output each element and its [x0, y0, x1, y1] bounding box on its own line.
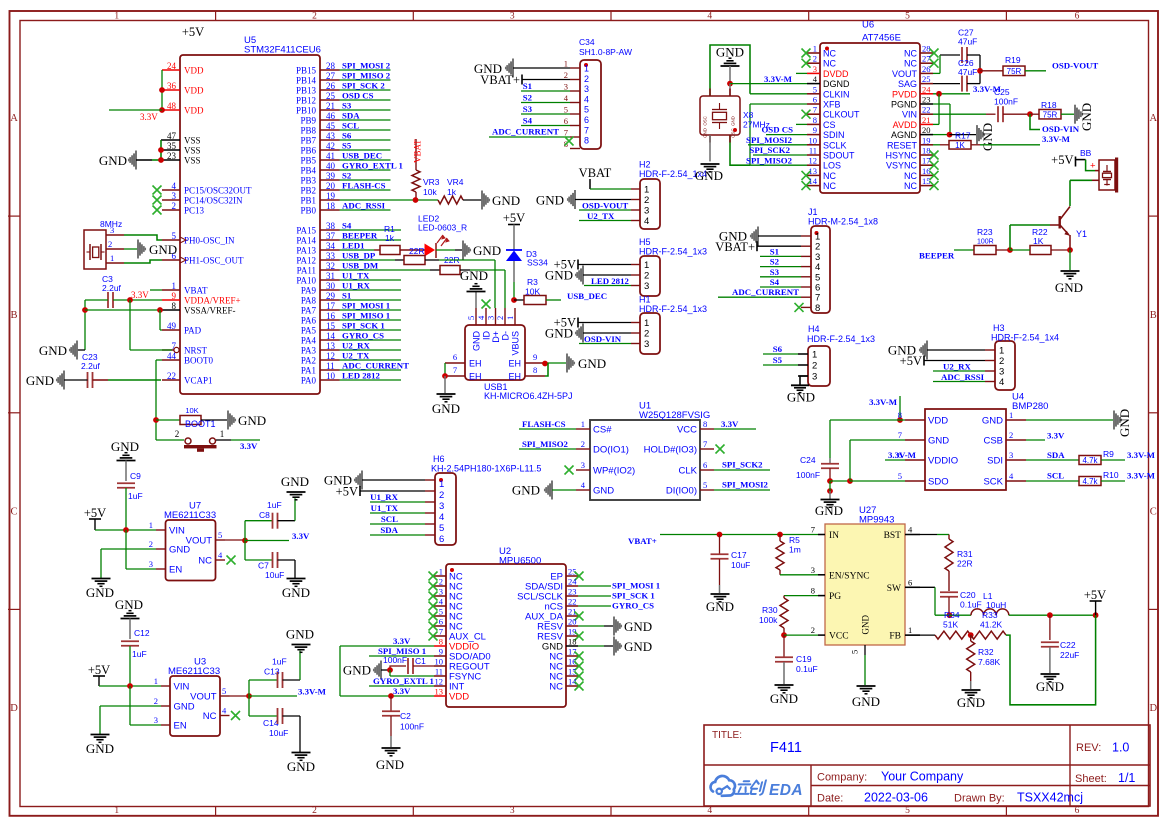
svg-text:GND: GND — [492, 193, 520, 208]
wire net SCL from U5 PB8 — [340, 121, 391, 131]
svg-text:2: 2 — [999, 356, 1004, 367]
svg-text:SAG: SAG — [898, 79, 917, 89]
svg-text:GND: GND — [982, 416, 1003, 427]
gnd flag U2 GND18 — [578, 637, 652, 656]
header J1 pin 1 — [801, 232, 820, 243]
net label 3.3V near VDD48 — [140, 112, 158, 122]
connector C34 pin 1 — [564, 59, 589, 74]
svg-text:0.1uF: 0.1uF — [960, 600, 982, 610]
svg-text:9: 9 — [172, 291, 177, 301]
mcu U5 pin 48 VDD — [162, 101, 204, 116]
wire net U2_TX to H2 — [579, 211, 631, 221]
svg-text:VR4: VR4 — [447, 177, 464, 187]
mcu U5 STM32F411CEU6 body — [180, 35, 321, 394]
svg-text:GND: GND — [39, 343, 67, 358]
svg-text:5: 5 — [218, 530, 222, 540]
header H5 pin 2 — [631, 271, 649, 282]
svg-text:+5V: +5V — [503, 211, 525, 225]
flash U1 pin 3 WP#(IO2) — [576, 460, 635, 477]
osd U6 pin 26 VOUT — [892, 64, 933, 79]
svg-text:12: 12 — [326, 351, 335, 361]
svg-text:1: 1 — [564, 59, 568, 69]
svg-text:GND: GND — [1036, 679, 1064, 694]
svg-text:2: 2 — [644, 271, 649, 282]
wire net S1 to J1 — [760, 246, 801, 256]
gnd flag at U5 VSS pins — [99, 151, 161, 170]
svg-text:22uF: 22uF — [1060, 650, 1079, 660]
svg-text:SPI_SCK 2: SPI_SCK 2 — [342, 81, 385, 91]
svg-text:75R: 75R — [1043, 110, 1058, 119]
svg-text:C34: C34 — [579, 37, 595, 47]
svg-text:NC: NC — [823, 59, 836, 69]
gnd earth above C9 — [111, 439, 139, 481]
svg-text:S3: S3 — [770, 267, 780, 277]
gnd flag C23 — [26, 371, 88, 390]
svg-text:GND: GND — [852, 694, 880, 709]
header J1 pin 6 — [801, 283, 820, 294]
svg-text:5: 5 — [564, 105, 568, 115]
svg-text:A: A — [1150, 113, 1158, 124]
svg-text:44: 44 — [167, 351, 177, 361]
svg-text:+5V: +5V — [84, 506, 106, 520]
regulator U3 pin 4 NC — [203, 706, 230, 723]
svg-text:7: 7 — [453, 365, 457, 375]
svg-text:23: 23 — [167, 151, 177, 161]
wire net FLASH-CS from U5 PB2 — [340, 181, 391, 191]
svg-text:GND: GND — [472, 331, 482, 352]
imu U2 pin 7 AUX_CL — [429, 627, 486, 643]
svg-text:20: 20 — [922, 125, 931, 135]
svg-text:15: 15 — [922, 176, 931, 186]
svg-text:16: 16 — [922, 166, 931, 176]
svg-text:GND: GND — [1079, 103, 1094, 131]
svg-text:2: 2 — [644, 195, 649, 206]
svg-text:GND: GND — [980, 123, 995, 151]
svg-text:ADC_CURRENT: ADC_CURRENT — [492, 127, 559, 137]
svg-text:VBAT: VBAT — [413, 139, 423, 163]
svg-text:DI(IO0): DI(IO0) — [666, 486, 697, 497]
svg-text:HDR-M-2.54_1x8: HDR-M-2.54_1x8 — [808, 217, 878, 227]
svg-text:GND: GND — [716, 45, 744, 60]
gnd flag USB1 right — [566, 354, 606, 373]
regulator U7 pin 2 GND — [149, 539, 191, 556]
usb USB1 pin 6 EH — [445, 352, 482, 369]
wire net S4 to C34 — [521, 116, 570, 126]
no-connect mark U1 WP# — [565, 466, 574, 475]
svg-text:25: 25 — [922, 74, 931, 84]
osd U6 pin 12 LOS — [807, 156, 841, 171]
flash U1 pin 8 VCC — [677, 419, 714, 436]
wire USB1 EH9 EH8 to gnd — [542, 361, 566, 376]
wire U2 FSYNC to gnd — [390, 670, 434, 676]
mcu U5 pin 33 PA12 — [296, 251, 339, 266]
gnd flag U2 RESV20 — [578, 617, 652, 636]
svg-text:49: 49 — [167, 321, 177, 331]
svg-text:Sheet:: Sheet: — [1075, 773, 1107, 785]
mcu U5 pin 24 VDD — [162, 61, 204, 76]
svg-text:S1: S1 — [770, 246, 779, 256]
svg-text:USB_DM: USB_DM — [342, 261, 379, 271]
svg-text:PB1: PB1 — [300, 196, 316, 206]
svg-text:15: 15 — [326, 321, 336, 331]
svg-text:3: 3 — [510, 806, 515, 816]
svg-text:29: 29 — [326, 291, 336, 301]
svg-text:GND: GND — [1117, 409, 1132, 437]
header H5 pin 1 — [631, 260, 649, 271]
svg-text:10uF: 10uF — [731, 560, 750, 570]
svg-text:HDR-F-2.54_1x3: HDR-F-2.54_1x3 — [639, 304, 707, 314]
wire PVDD to AVDD tie — [933, 94, 939, 125]
wire net SPI_MOSI 1 from U5 PA7 — [340, 301, 402, 311]
svg-text:GND: GND — [86, 585, 114, 600]
logo LCEDA cloud icon — [711, 776, 735, 796]
mcu U5 pin 26 PB13 — [296, 81, 340, 96]
svg-text:BMP280: BMP280 — [1012, 401, 1048, 412]
svg-text:R19: R19 — [1005, 55, 1021, 65]
capacitor C17 10uF — [711, 535, 751, 594]
sensor U4 pin 6 VDDIO — [898, 450, 958, 467]
svg-text:B: B — [1150, 310, 1157, 321]
wire +5V to U5 VDD pins — [159, 70, 165, 113]
svg-text:47uF: 47uF — [958, 67, 977, 77]
svg-text:18: 18 — [568, 637, 577, 647]
osd U6 pin 6 XFB — [807, 95, 841, 110]
connector C34 pin 6 — [564, 115, 589, 126]
mcu U5 pin 45 PB8 — [300, 121, 339, 136]
wire net SPI_MISO2 to U1 — [519, 439, 576, 449]
buzzer BB — [1080, 148, 1118, 193]
svg-text:46: 46 — [326, 111, 336, 121]
svg-text:CSB: CSB — [983, 436, 1003, 447]
svg-text:PC14/OSC32IN: PC14/OSC32IN — [184, 196, 243, 206]
wire net GYRO_EXTL 1 from U5 PB4 — [340, 161, 403, 171]
mcu U5 pin 2 PC13 — [162, 201, 205, 216]
svg-text:OSD-VOUT: OSD-VOUT — [582, 201, 628, 211]
wire net LED1 from U5 PA13 — [340, 241, 375, 251]
svg-text:NC: NC — [203, 711, 217, 722]
imu U2 pin 15 NC — [549, 667, 583, 683]
osd U6 pin 27 NC — [904, 54, 939, 69]
svg-text:2: 2 — [108, 239, 112, 249]
svg-text:6: 6 — [1075, 12, 1080, 22]
wire VDDA 3.3V net — [85, 297, 162, 350]
wire net S2 to J1 — [760, 257, 801, 267]
mcu U5 pin 41 PB5 — [300, 151, 339, 166]
wire net ADC_CURRENT from U5 PA1 — [340, 361, 410, 371]
regulator U7 ME6211C33 body — [164, 501, 216, 581]
title block REV label — [1076, 742, 1101, 754]
svg-text:42: 42 — [326, 141, 335, 151]
svg-text:LED 2812: LED 2812 — [342, 371, 380, 381]
header H6 pin 5 — [425, 523, 444, 534]
svg-text:40: 40 — [326, 161, 336, 171]
power flag VBAT at H2 — [579, 166, 631, 189]
gnd earth above crystal X8 — [716, 45, 744, 84]
wire VBAT+ to U27 IN — [660, 532, 818, 538]
svg-text:3: 3 — [564, 82, 568, 92]
junction dot U4 VDD — [897, 417, 903, 423]
gnd flag J1 pin1 — [719, 227, 801, 246]
mcu U5 pin 23 VSS — [161, 151, 201, 166]
regulator U7 pin 5 VOUT — [186, 530, 225, 547]
svg-text:SCLK: SCLK — [823, 140, 847, 150]
svg-text:GND: GND — [770, 691, 798, 706]
svg-text:HDR-F-2.54_1x4: HDR-F-2.54_1x4 — [991, 333, 1059, 343]
svg-text:S4: S4 — [770, 277, 780, 287]
svg-text:PA10: PA10 — [296, 276, 316, 286]
svg-text:3: 3 — [811, 565, 815, 575]
svg-text:ADC_RSSI: ADC_RSSI — [941, 372, 985, 382]
svg-text:ME6211C33: ME6211C33 — [168, 666, 220, 677]
svg-text:DVDD: DVDD — [823, 69, 849, 79]
svg-text:100nF: 100nF — [796, 470, 820, 480]
mcu U5 pin 44 BOOT0 — [162, 351, 213, 366]
svg-text:3.3V-M: 3.3V-M — [888, 450, 917, 460]
header H6 pin 6 — [425, 534, 444, 545]
svg-text:CS: CS — [823, 120, 836, 130]
svg-text:PB6: PB6 — [300, 146, 316, 156]
svg-text:SDIN: SDIN — [823, 130, 845, 140]
svg-text:U2_RX: U2_RX — [943, 362, 972, 372]
mcu U5 pin 3 PC14/OSC32IN — [162, 191, 243, 206]
resistor 22R USB_DP — [395, 255, 460, 265]
svg-text:25: 25 — [326, 91, 336, 101]
svg-text:EH: EH — [508, 359, 521, 369]
svg-text:GND: GND — [815, 503, 843, 518]
svg-text:VOUT: VOUT — [186, 536, 213, 547]
svg-text:D: D — [10, 703, 18, 714]
svg-text:4: 4 — [439, 512, 444, 523]
svg-text:36: 36 — [167, 81, 177, 91]
resistor 22R USB_DM — [430, 266, 470, 275]
svg-text:48: 48 — [167, 101, 177, 111]
flash U1 pin 1 CS# — [576, 419, 612, 436]
svg-text:21: 21 — [922, 115, 931, 125]
svg-text:LED 2812: LED 2812 — [591, 276, 629, 286]
svg-text:2: 2 — [312, 12, 317, 22]
wire net SPI_MISO 1 at U2 SDO — [369, 646, 434, 656]
mcu U5 pin 21 PB10 — [296, 101, 340, 116]
wire U4 GND1 to flag — [1026, 419, 1113, 421]
mcu U5 pin 46 PB9 — [300, 111, 339, 126]
header H3 HDR-F-2.54_1x4 body — [991, 323, 1059, 390]
svg-text:75R: 75R — [1007, 67, 1022, 76]
svg-text:19: 19 — [326, 191, 336, 201]
svg-text:OSC GND: OSC GND — [731, 116, 736, 138]
svg-text:8: 8 — [533, 365, 537, 375]
mcu U5 pin 7 NRST — [162, 341, 208, 356]
svg-text:1: 1 — [812, 350, 817, 361]
svg-text:CLKOUT: CLKOUT — [823, 110, 860, 120]
svg-text:7: 7 — [811, 525, 815, 535]
svg-text:2.2uf: 2.2uf — [102, 283, 122, 293]
svg-text:5: 5 — [850, 650, 860, 654]
wire net SPI_MISO 1 from U5 PA6 — [340, 311, 402, 321]
gnd earth above C12 — [115, 597, 143, 639]
svg-text:VIN: VIN — [902, 110, 917, 120]
osd U6 pin 8 CS — [807, 115, 836, 130]
svg-text:8: 8 — [811, 586, 815, 596]
wire BOOT0 to button rail — [153, 360, 162, 440]
mcu U5 pin 39 PB3 — [300, 171, 339, 186]
net label USB_DEC at R3 — [567, 291, 607, 301]
power flag +5V at D3 — [503, 211, 525, 250]
svg-text:1.0: 1.0 — [1112, 741, 1129, 755]
svg-text:GND: GND — [578, 356, 606, 371]
svg-text:22: 22 — [568, 597, 577, 607]
svg-text:PA15: PA15 — [296, 226, 316, 236]
svg-text:47uF: 47uF — [958, 37, 977, 47]
svg-text:GND: GND — [624, 639, 652, 654]
wire net USB_DEC from U5 PB5 — [340, 151, 391, 161]
svg-text:1: 1 — [908, 625, 912, 635]
junction dot DGND node — [727, 81, 733, 87]
wire net S3 from U5 PB10 — [340, 101, 391, 111]
mcu U5 pin 47 VSS — [161, 131, 201, 146]
junction dot R22/emitter — [1067, 247, 1073, 253]
wire VSS tie — [158, 140, 164, 163]
svg-text:22: 22 — [167, 371, 176, 381]
wire SPI_SCK2 to U6 SDOUT — [749, 145, 807, 155]
wire SPI_MOSI2 to U6 SCLK — [746, 135, 807, 145]
svg-text:SDOUT: SDOUT — [823, 151, 855, 161]
gnd flag crystal pin2 — [124, 240, 177, 259]
wire net OSD-VOUT to H2 — [579, 201, 631, 211]
capacitor C1 100nF at REGOUT — [383, 655, 434, 674]
svg-text:NC: NC — [904, 181, 917, 191]
svg-text:3.3V-M: 3.3V-M — [764, 74, 793, 84]
svg-text:19: 19 — [922, 135, 931, 145]
title block company value — [881, 770, 964, 784]
wire net ADC_RSSI to H3 — [933, 372, 985, 382]
svg-text:+5V: +5V — [1051, 153, 1073, 167]
svg-text:C24: C24 — [800, 455, 816, 465]
svg-text:3: 3 — [172, 191, 177, 201]
mcu U5 pin 19 PB1 — [300, 191, 339, 206]
net label VBAT+ at U27 — [628, 536, 657, 546]
svg-text:GND: GND — [787, 390, 815, 405]
title block outline — [704, 725, 1150, 806]
wire net ADC_CURRENT to C34 pin7 — [489, 127, 570, 138]
capacitor C2 100nF — [382, 696, 424, 747]
wire +5V to U3 VIN — [99, 683, 161, 689]
net label SPI_MISO2 on LOS wire — [746, 155, 793, 165]
no-connect mark U3 NC — [231, 711, 240, 720]
svg-text:20: 20 — [326, 181, 336, 191]
wire crystal pin1 to PH1-OSC_OUT — [124, 260, 162, 263]
usb USB1 pin 7 EH — [445, 365, 482, 382]
svg-text:S6: S6 — [773, 344, 783, 354]
wire net SPI_SCK 1 from U5 PA5 — [340, 321, 402, 331]
svg-text:8: 8 — [815, 303, 820, 314]
svg-text:VSSA/VREF-: VSSA/VREF- — [184, 306, 236, 316]
svg-text:NC: NC — [823, 49, 836, 59]
svg-text:PA8: PA8 — [301, 296, 317, 306]
buck U27 pin 8 PG — [811, 586, 842, 603]
svg-text:100nF: 100nF — [400, 722, 424, 732]
connector C34 pin 4 — [564, 93, 589, 104]
svg-text:3.3V-M: 3.3V-M — [298, 687, 327, 697]
mcu U5 pin 13 PA3 — [301, 341, 340, 356]
no-connect marks PC15 PC14 PC13 — [153, 186, 162, 215]
wire +5V to U7 VIN — [95, 527, 156, 533]
svg-text:VDD: VDD — [449, 692, 469, 703]
svg-text:U1_TX: U1_TX — [342, 271, 370, 281]
svg-text:C: C — [10, 507, 17, 518]
wire net S5 from U5 PB6 — [340, 141, 391, 151]
svg-text:10uF: 10uF — [265, 570, 284, 580]
imu U2 pin 11 FSYNC — [434, 667, 481, 683]
junction dot VBUS node — [511, 297, 517, 303]
svg-text:U2_RX: U2_RX — [342, 341, 371, 351]
wire OSD CS to U6 SDIN — [761, 125, 807, 135]
svg-text:NC: NC — [904, 49, 917, 59]
gnd flag BOOT1 resistor — [201, 411, 266, 430]
wire C27/C26 join to R19 — [977, 55, 983, 84]
svg-text:R9: R9 — [1103, 449, 1114, 459]
buck U27 MP9943 body — [825, 505, 905, 645]
imu U2 pin 4 NC — [429, 597, 463, 613]
svg-text:GND: GND — [26, 373, 54, 388]
wire U7 GND to earth — [101, 549, 156, 578]
wire crystal to XFB and LOS — [730, 104, 807, 165]
svg-text:U2_TX: U2_TX — [342, 351, 370, 361]
svg-text:KH-MICRO6.4ZH-5PJ: KH-MICRO6.4ZH-5PJ — [484, 391, 573, 401]
svg-text:NC: NC — [904, 59, 917, 69]
svg-text:R5: R5 — [789, 535, 800, 545]
wire net U1_RX to H6 — [370, 492, 425, 502]
svg-text:EDA: EDA — [769, 782, 803, 799]
wire R33 to +5V rail loop — [1006, 615, 1096, 705]
svg-text:GND: GND — [473, 243, 501, 258]
svg-text:1: 1 — [172, 281, 177, 291]
net label 3.3V-M at R17 — [1042, 134, 1071, 144]
svg-text:23: 23 — [568, 587, 577, 597]
svg-text:NC: NC — [198, 556, 212, 567]
svg-text:D+: D+ — [491, 331, 501, 343]
svg-text:+5V: +5V — [900, 354, 922, 368]
gnd earth C8 — [281, 474, 309, 500]
svg-text:NC: NC — [549, 682, 563, 693]
svg-text:PGND: PGND — [891, 100, 918, 110]
transistor Y1 — [1059, 207, 1088, 251]
gnd earth U7 — [86, 579, 114, 601]
mcu U5 pin 27 PB14 — [296, 71, 340, 86]
svg-text:GND: GND — [545, 326, 573, 341]
svg-text:TSXX42mcj: TSXX42mcj — [1017, 791, 1083, 805]
svg-text:PB4: PB4 — [300, 166, 316, 176]
wire base drive — [1010, 225, 1059, 250]
svg-text:C12: C12 — [134, 628, 150, 638]
header J1 HDR-M-2.54_1x8 body — [808, 207, 878, 313]
buck U27 pin 4 BST — [884, 525, 920, 542]
svg-text:1: 1 — [149, 520, 153, 530]
title block drawn by value — [1017, 791, 1083, 805]
svg-text:1: 1 — [114, 806, 119, 816]
gnd earth emitter — [1055, 250, 1083, 295]
svg-text:2: 2 — [644, 329, 649, 340]
osd U6 pin 17 VSYNC — [886, 156, 939, 171]
svg-text:28: 28 — [326, 61, 336, 71]
connector C34 pin 8 — [564, 136, 589, 149]
svg-text:2: 2 — [564, 70, 568, 80]
svg-text:AT7456E: AT7456E — [862, 33, 901, 44]
mcu U5 pin 1 VBAT — [162, 281, 208, 296]
osd U6 pin 3 DVDD — [807, 64, 849, 79]
svg-text:GND: GND — [928, 436, 949, 447]
capacitor C3 2.2uf — [102, 274, 122, 308]
wire CS stub — [796, 123, 807, 125]
